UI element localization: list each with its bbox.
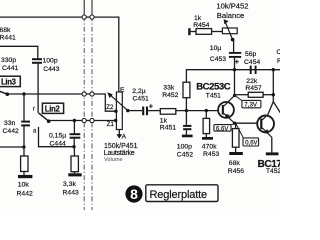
node junction C453 bottom <box>233 68 236 71</box>
ground under R456 <box>229 152 243 155</box>
board name box Reglerplatte <box>146 185 218 202</box>
node collector junction <box>233 94 236 97</box>
resistor R456 <box>235 123 237 128</box>
ground under R442 <box>18 175 32 178</box>
svg-text:C441: C441 <box>2 65 18 72</box>
svg-text:Balance: Balance <box>217 11 244 20</box>
capacitor C451 <box>143 107 147 116</box>
wire C441 feed to C443 top <box>0 46 38 58</box>
svg-text:100p: 100p <box>177 143 192 150</box>
switch Lin3 box <box>0 76 20 86</box>
svg-text:R443: R443 <box>63 190 79 197</box>
switch Lin3 arm <box>0 91 7 94</box>
wire C443 bottom to switch contact r <box>37 64 39 113</box>
node junction rail right <box>272 68 275 71</box>
svg-text:C4: C4 <box>276 49 280 56</box>
ground under C452 <box>182 135 193 138</box>
svg-text:E: E <box>120 87 125 94</box>
svg-text:r: r <box>33 107 35 113</box>
svg-text:R441: R441 <box>0 35 16 42</box>
ground under R443 <box>68 173 81 176</box>
svg-text:C444: C444 <box>50 140 66 147</box>
svg-text:7,3V: 7,3V <box>244 102 258 109</box>
switch Lin2 box <box>42 103 63 113</box>
node Z1 tap <box>114 119 117 122</box>
svg-text:2,2µ: 2,2µ <box>132 88 145 95</box>
capacitor C443 <box>32 59 42 63</box>
shield line S1 (left dash-dot vertical) <box>83 0 85 16</box>
svg-text:Lin2: Lin2 <box>45 105 61 114</box>
P451 value label <box>104 143 138 163</box>
P451 terminal A arrow <box>118 130 120 135</box>
svg-text:33k: 33k <box>163 85 175 92</box>
wire rail to R457 junction <box>272 70 274 95</box>
svg-text:C442: C442 <box>3 128 19 135</box>
svg-text:56p: 56p <box>245 51 257 58</box>
board number badge 8 <box>125 185 142 202</box>
svg-text:Reglerplatte: Reglerplatte <box>150 189 208 201</box>
svg-text:470k: 470k <box>202 143 217 150</box>
capacitor C444 <box>73 121 75 134</box>
svg-text:Volume: Volume <box>104 157 123 163</box>
P452 wiper arrow <box>225 22 232 40</box>
wire C451 to R451 <box>148 110 160 112</box>
svg-text:Z2: Z2 <box>106 105 114 111</box>
capacitor C453 <box>233 40 235 52</box>
svg-text:330p: 330p <box>1 57 16 64</box>
switch Lin2 arm <box>38 113 48 121</box>
node junction R452/C452 <box>185 109 188 112</box>
svg-text:+: + <box>235 57 239 66</box>
ground under T452 emitter <box>266 152 279 155</box>
resistor R454 with terminal bar <box>188 28 190 35</box>
voltage label 7,3V <box>235 96 243 101</box>
svg-text:Z1: Z1 <box>107 122 115 128</box>
svg-text:C443: C443 <box>43 66 59 73</box>
node junction R453 <box>205 109 208 112</box>
svg-text:C453: C453 <box>210 56 226 63</box>
wire main signal line y94 to Z2 step <box>7 94 115 111</box>
wire left stub y148 <box>0 146 24 148</box>
transistor T451 (BC253C) <box>218 102 234 118</box>
svg-text:R453: R453 <box>203 151 219 158</box>
wire wiper to C451 <box>128 110 142 112</box>
node E label <box>120 87 125 94</box>
svg-text:+: + <box>149 102 153 111</box>
capacitor C442 <box>23 94 25 121</box>
resistor R453 <box>205 111 207 119</box>
svg-text:Lin3: Lin3 <box>1 78 17 87</box>
svg-text:1k: 1k <box>194 15 202 22</box>
wire top input to pot E (node E feed) <box>0 17 119 92</box>
svg-text:0,6V: 0,6V <box>245 141 257 147</box>
resistor R452 <box>185 70 187 83</box>
wire T452 emitter to ground <box>271 137 273 152</box>
svg-text:R451: R451 <box>160 124 176 131</box>
svg-text:a: a <box>33 129 37 135</box>
wire Z1 line <box>49 120 116 122</box>
capacitor C454 <box>251 66 256 74</box>
node emitter junction <box>233 122 236 125</box>
node junction C444 bottom <box>72 145 75 148</box>
svg-text:C452: C452 <box>177 152 193 159</box>
voltage label 0,6V <box>236 124 243 138</box>
svg-text:10µ: 10µ <box>210 45 222 52</box>
node junction C444 top <box>73 119 76 122</box>
svg-text:6,6V: 6,6V <box>216 126 228 132</box>
wire junction down to T452 collector and off-frame branch <box>268 95 273 115</box>
resistor R451 <box>160 109 176 115</box>
ground under R453 <box>202 137 213 140</box>
cut-off labels at right edge <box>276 49 285 65</box>
svg-text:1k: 1k <box>160 117 168 124</box>
node junction at R442 top <box>22 145 25 148</box>
svg-text:68k: 68k <box>229 160 241 167</box>
resistor R441 label (component off-frame) <box>0 27 16 42</box>
svg-text:T452: T452 <box>266 168 280 175</box>
shield line S2 (right dash-dot vertical) <box>91 0 93 16</box>
svg-text:10k: 10k <box>18 182 30 189</box>
svg-text:10k/P452: 10k/P452 <box>216 2 248 11</box>
svg-text:R456: R456 <box>228 168 244 175</box>
rail y69.7 (R452 top / C453 / C454 rail) <box>186 69 280 71</box>
svg-text:100p: 100p <box>43 57 58 64</box>
svg-text:68k: 68k <box>0 27 11 34</box>
svg-text:3,3k: 3,3k <box>63 181 76 188</box>
wire T451 emitter to T452 base <box>235 122 258 124</box>
svg-text:R454: R454 <box>193 22 209 29</box>
svg-text:A: A <box>122 134 127 141</box>
switch Lin2 contact a label <box>33 129 37 135</box>
node junction R457 right <box>272 93 275 96</box>
svg-text:R452: R452 <box>162 92 178 99</box>
resistor R442 <box>23 147 25 156</box>
svg-text:0,15µ: 0,15µ <box>49 132 66 139</box>
capacitor C441 label (component off-frame) <box>1 57 18 72</box>
resistor R457 <box>235 94 249 96</box>
node Z2 tap <box>114 110 117 113</box>
wire contact a to C444 bottom node <box>39 127 74 147</box>
switch Lin2 contact r label <box>33 107 35 113</box>
svg-text:R4: R4 <box>277 58 280 65</box>
potentiometer P452 body <box>222 28 237 34</box>
svg-text:R442: R442 <box>17 191 33 198</box>
capacitor C452 <box>185 111 187 125</box>
pin circles on shield lines <box>82 15 94 123</box>
svg-text:22k: 22k <box>246 78 258 85</box>
voltage label 6,6V <box>231 123 234 125</box>
svg-text:C454: C454 <box>244 59 260 66</box>
svg-text:C451: C451 <box>133 96 149 103</box>
svg-text:150k/P451: 150k/P451 <box>104 143 138 150</box>
svg-text:Lautstärke: Lautstärke <box>104 150 135 157</box>
node junction C442 tap <box>22 92 25 95</box>
transistor T452 (BC173) <box>257 116 274 133</box>
potentiometer P451 body <box>116 92 122 130</box>
resistor R443 <box>73 147 75 156</box>
wire collector to rail <box>234 70 236 96</box>
svg-text:33n: 33n <box>4 120 16 127</box>
svg-text:8: 8 <box>130 186 138 202</box>
P451 wiper arrow <box>109 94 128 111</box>
svg-text:BC253C: BC253C <box>196 82 231 93</box>
svg-text:T451: T451 <box>206 92 221 99</box>
wire R451 to base <box>176 110 218 112</box>
svg-text:R457: R457 <box>245 85 261 92</box>
